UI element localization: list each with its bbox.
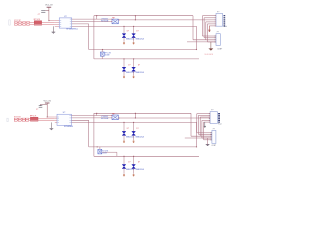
resistor R? bbox=[26, 118, 29, 119]
wire ch2 rail bbox=[89, 146, 197, 148]
ground arrow bbox=[123, 140, 125, 143]
wire c2 long bbox=[191, 135, 212, 137]
wire chain row1 bbox=[14, 118, 55, 120]
wire c1 pin bbox=[202, 119, 210, 121]
junction bbox=[48, 20, 49, 21]
wire top rail bbox=[94, 15, 193, 17]
wire drail vertical bbox=[196, 122, 198, 146]
resistor R? bbox=[14, 22, 17, 23]
wire to ground bbox=[50, 122, 52, 128]
connector P1 header bbox=[215, 12, 227, 29]
wire vertical ch2 feed bbox=[88, 24, 90, 50]
svg-text:CON?: CON? bbox=[212, 145, 217, 147]
diode D2 bbox=[132, 128, 145, 138]
connector P2 bbox=[215, 32, 223, 51]
resistor pack RP? a bbox=[34, 21, 41, 24]
resistor R? bbox=[23, 24, 26, 25]
connector P2 bbox=[211, 128, 216, 147]
wire c2 long bbox=[185, 137, 212, 139]
junction bbox=[135, 117, 136, 118]
svg-text:SP3485EEN-L: SP3485EEN-L bbox=[66, 29, 78, 31]
wire waterfall vertical bbox=[199, 117, 201, 136]
connector J-left bbox=[9, 20, 10, 25]
ground arrow bbox=[133, 140, 135, 143]
svg-text:FB?: FB? bbox=[112, 113, 115, 115]
wire bias tap bbox=[134, 113, 136, 118]
resistor R? bbox=[27, 22, 30, 23]
wire chain row2 bbox=[14, 120, 55, 122]
diode D2 bbox=[132, 30, 145, 40]
wire rail tap bbox=[96, 16, 98, 19]
resistor R? bbox=[27, 24, 30, 25]
wire to ground bbox=[207, 138, 209, 144]
power port down arrow bbox=[209, 42, 213, 51]
wire diode to gnd bbox=[133, 37, 135, 41]
resistor pack RP? b bbox=[30, 120, 38, 122]
svg-text:D?: D? bbox=[128, 64, 130, 66]
wire vertical ch2 feed bbox=[88, 120, 90, 147]
wire pin stub bbox=[55, 118, 57, 120]
ground arrow bbox=[123, 42, 125, 45]
inductor filter L? bbox=[101, 18, 120, 24]
svg-text:D?: D? bbox=[127, 128, 129, 130]
wire pin stub bbox=[55, 121, 57, 123]
resistor R? bbox=[22, 120, 25, 121]
wire diode to gnd bbox=[123, 168, 125, 173]
resistor R? bbox=[26, 120, 29, 121]
svg-text:R? 4.7K: R? 4.7K bbox=[102, 151, 109, 153]
wire pin stub bbox=[55, 20, 59, 22]
wire diode to gnd bbox=[133, 135, 135, 140]
wire A to choke bbox=[72, 18, 112, 20]
wire signal out bbox=[118, 117, 210, 119]
junction bbox=[133, 156, 134, 157]
resistor pack RP? b bbox=[34, 24, 41, 26]
wire ch2 rail bbox=[89, 49, 197, 51]
ground arrow bbox=[123, 76, 125, 79]
svg-text:L? B2012: L? B2012 bbox=[101, 18, 108, 20]
wire diode rail bbox=[71, 121, 196, 123]
wire diode drop bbox=[123, 122, 125, 131]
wire vcc to pin1 bbox=[47, 116, 55, 118]
wire signal out bbox=[118, 19, 216, 21]
resistor/fuse X-box ch2 bbox=[100, 50, 111, 59]
wire left vertical bbox=[93, 16, 95, 59]
wire diode drop bbox=[133, 156, 135, 164]
svg-text:R? 4.7K: R? 4.7K bbox=[105, 52, 112, 54]
svg-text:D?: D? bbox=[136, 30, 138, 32]
svg-text:VCC_5V: VCC_5V bbox=[44, 101, 52, 103]
wire vcc to pin1 bbox=[49, 20, 55, 22]
resistor R? bbox=[14, 118, 17, 119]
resistor R? bbox=[18, 120, 21, 121]
wire c1 pin bbox=[199, 114, 211, 116]
wire top rail bbox=[94, 112, 191, 114]
wire c2 pin bbox=[199, 134, 212, 136]
wire diode drop bbox=[133, 59, 135, 68]
wire c1 pin bbox=[204, 17, 216, 19]
wire c2 long bbox=[187, 41, 216, 43]
wire diode to gnd bbox=[123, 71, 125, 75]
junction bbox=[135, 19, 136, 20]
wire pin stub bbox=[55, 24, 59, 26]
wire c2 long bbox=[193, 39, 216, 41]
svg-text:P?: P? bbox=[211, 110, 213, 112]
wire diode drop bbox=[133, 122, 135, 131]
wire c1 pin bbox=[208, 23, 217, 25]
wire pin stub bbox=[55, 116, 57, 118]
ground bbox=[52, 32, 56, 33]
wire to ch2 bbox=[72, 23, 89, 25]
power VCC bbox=[45, 5, 53, 21]
junction bbox=[135, 113, 136, 114]
junction bbox=[133, 122, 134, 123]
wire c2 pin bbox=[200, 135, 212, 137]
wire diode drop bbox=[133, 26, 135, 33]
svg-text:Head: Head bbox=[223, 26, 227, 28]
wire waterfall vertical bbox=[203, 122, 205, 140]
svg-text:C?: C? bbox=[36, 109, 38, 111]
power port arrow bbox=[208, 26, 210, 32]
junction bbox=[133, 26, 134, 27]
svg-text:P?: P? bbox=[213, 128, 215, 130]
ground arrow bbox=[133, 42, 135, 45]
junction bbox=[135, 15, 136, 16]
wire pin stub bbox=[55, 120, 57, 122]
wire waterfall vertical bbox=[198, 115, 200, 134]
wire c2 pin bbox=[204, 139, 212, 141]
ground bbox=[50, 128, 54, 129]
wire right vertical bbox=[190, 113, 192, 136]
wire diode drop bbox=[123, 156, 125, 164]
resistor/fuse X-box ch2 bbox=[98, 147, 117, 156]
wire c1 pin bbox=[209, 25, 216, 27]
wire A to choke bbox=[71, 115, 112, 117]
junction bbox=[123, 26, 124, 27]
wire bottom rail bbox=[94, 155, 199, 157]
ground arrow bbox=[133, 174, 135, 177]
wire chain row2 bbox=[15, 24, 55, 26]
wire diode drop bbox=[123, 26, 125, 33]
wire c1 pin bbox=[202, 15, 216, 17]
wire waterfall vertical bbox=[207, 24, 209, 42]
svg-text:CON?: CON? bbox=[217, 48, 222, 50]
wire pin stub bbox=[55, 25, 59, 27]
connector P1 header bbox=[209, 110, 222, 126]
junction bbox=[47, 116, 48, 117]
svg-text:RP? 4.7K: RP? 4.7K bbox=[34, 19, 40, 21]
power VCC bbox=[44, 101, 52, 118]
junction bbox=[133, 58, 134, 59]
wire c2 pin bbox=[202, 35, 216, 37]
svg-text:L? B2012: L? B2012 bbox=[101, 116, 108, 118]
diode D3 bbox=[122, 162, 135, 172]
wire c2 pin bbox=[202, 137, 212, 139]
svg-text:Head: Head bbox=[218, 124, 222, 126]
junction bbox=[123, 156, 124, 157]
ground mini bbox=[204, 122, 206, 128]
svg-text:C?: C? bbox=[38, 14, 40, 16]
svg-text:D?: D? bbox=[128, 162, 130, 164]
resistor R? bbox=[18, 118, 21, 119]
svg-text:R? R? R?: R? R? R? bbox=[14, 116, 21, 118]
wire diode to gnd bbox=[123, 37, 125, 41]
wire diode drop bbox=[123, 59, 125, 68]
junction bbox=[96, 113, 97, 114]
wire c1 pin bbox=[197, 113, 210, 115]
ground arrow bbox=[133, 76, 135, 79]
svg-text:1/16W: 1/16W bbox=[105, 54, 110, 56]
wire c2 pin bbox=[208, 41, 217, 43]
junction bbox=[196, 49, 197, 50]
wire diode to gnd bbox=[123, 135, 125, 140]
diode D1 bbox=[122, 30, 135, 40]
wire c2 pin bbox=[197, 132, 212, 134]
connector J-left bbox=[7, 118, 8, 121]
diode D1 bbox=[122, 128, 135, 138]
wire c1 pin bbox=[204, 121, 211, 123]
wire chain row1 bbox=[15, 21, 55, 23]
wire drail vertical bbox=[196, 26, 198, 49]
wire c2 pin bbox=[206, 39, 216, 41]
svg-text:RP? 4.7K: RP? 4.7K bbox=[30, 115, 36, 117]
resistor R? bbox=[18, 22, 21, 23]
diode D4 bbox=[132, 162, 145, 172]
resistor R? bbox=[22, 118, 25, 119]
wire c1 pin bbox=[206, 21, 216, 23]
wire left vertical bbox=[93, 113, 95, 156]
wire rail tap bbox=[96, 113, 98, 115]
resistor R? bbox=[14, 120, 17, 121]
junction bbox=[102, 49, 103, 50]
svg-text:D?: D? bbox=[136, 128, 138, 130]
op-amp U? transceiver bbox=[57, 112, 74, 128]
svg-text:FB?: FB? bbox=[112, 18, 115, 20]
wire B to choke bbox=[71, 117, 112, 119]
resistor R? bbox=[14, 24, 17, 25]
wire B to choke bbox=[72, 21, 112, 23]
wire c1 pin bbox=[200, 116, 210, 118]
svg-text:D?: D? bbox=[138, 162, 140, 164]
svg-text:90R/100M: 90R/100M bbox=[101, 21, 109, 23]
wire waterfall vertical bbox=[201, 120, 203, 138]
svg-text:90R/100M: 90R/100M bbox=[101, 118, 109, 120]
svg-text:R? R? R?: R? R? R? bbox=[14, 20, 21, 22]
svg-text:SP3485EN: SP3485EN bbox=[64, 126, 74, 128]
diode D4 bbox=[132, 64, 145, 74]
resistor pack RP? a bbox=[30, 117, 38, 120]
diode D3 bbox=[122, 64, 135, 74]
wire waterfall vertical bbox=[203, 18, 205, 38]
wire diode to gnd bbox=[133, 71, 135, 75]
junction bbox=[123, 122, 124, 123]
ground arrow bbox=[123, 174, 125, 177]
junction bbox=[96, 15, 97, 16]
svg-text:D?: D? bbox=[127, 30, 129, 32]
wire bottom rail bbox=[94, 58, 199, 60]
svg-text:VCC_5V: VCC_5V bbox=[45, 5, 53, 7]
resistor R? bbox=[23, 22, 26, 23]
wire diode to gnd bbox=[133, 168, 135, 173]
resistor R? bbox=[18, 24, 21, 25]
wire diode rail bbox=[72, 25, 197, 27]
wire bias tap bbox=[134, 16, 136, 20]
wire c2 pin bbox=[204, 37, 216, 39]
wire to ch2 bbox=[71, 119, 88, 121]
op-amp U? transceiver bbox=[59, 16, 78, 31]
wire waterfall vertical bbox=[201, 16, 203, 36]
junction bbox=[196, 146, 197, 147]
svg-text:P?: P? bbox=[217, 32, 219, 34]
junction bbox=[97, 146, 98, 147]
svg-text:1/16W: 1/16W bbox=[102, 153, 107, 155]
svg-text:D?: D? bbox=[138, 64, 140, 66]
wire right vertical bbox=[192, 16, 194, 40]
inductor filter L? bbox=[101, 113, 120, 120]
junction bbox=[123, 58, 124, 59]
wire waterfall vertical bbox=[196, 114, 198, 133]
wire to ground bbox=[52, 26, 54, 32]
ground bbox=[206, 144, 210, 145]
capacitor C? bbox=[36, 104, 47, 111]
wire pin stub bbox=[55, 21, 59, 23]
wire waterfall vertical bbox=[205, 22, 207, 40]
svg-text:P?: P? bbox=[217, 12, 219, 14]
capacitor C? bbox=[38, 11, 49, 16]
